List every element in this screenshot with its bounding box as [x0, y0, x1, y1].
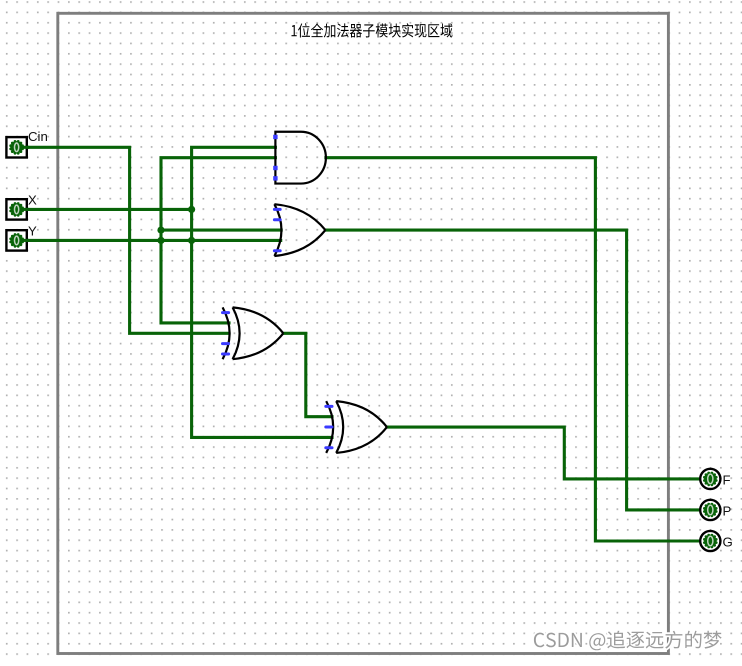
wire net B: AND input pin2 down vertical B to XOR2 input pin4 — [192, 147, 332, 437]
svg-text:Cin: Cin — [28, 129, 48, 144]
input pin Y — [6, 224, 37, 251]
junction Y net at vertical B — [188, 237, 195, 244]
XOR gate U4 — [326, 401, 387, 453]
input pin X — [6, 193, 37, 220]
wire net A: AND input pin3 down vertical A to XOR1 input pin2 — [161, 158, 275, 323]
input pin Cin — [6, 129, 47, 157]
wire XOR1 output to XOR2 input pin2 — [283, 333, 332, 416]
XOR gate U3 — [223, 307, 284, 359]
junction net A at OR branch — [157, 227, 164, 234]
svg-text:X: X — [28, 193, 37, 208]
wire Cin net: Cin pin to XOR1 input pin3 — [27, 147, 229, 333]
svg-text:G: G — [723, 535, 733, 550]
svg-text:F: F — [723, 473, 731, 488]
wire Y net: Y pin across junctions to OR gate input pin4 — [27, 239, 281, 242]
output pin G — [700, 531, 733, 551]
svg-text:Y: Y — [28, 224, 37, 239]
wire X net: X pin to junction on vertical B — [27, 208, 192, 211]
junction Y net at vertical A — [157, 237, 164, 244]
AND gate U1 — [273, 132, 326, 184]
svg-text:P: P — [723, 504, 732, 519]
output pin P — [700, 500, 731, 520]
wire AND output to output pin G — [326, 158, 700, 541]
watermark: CSDN @追逐远方的梦 — [534, 631, 722, 651]
OR gate U2 — [274, 204, 325, 256]
wire net A branch: junction to OR gate input pin3 — [161, 229, 281, 232]
wire OR output to output pin P — [325, 230, 700, 510]
title label: 1位全加法器子模块实现区域 — [292, 23, 453, 37]
junction X net at vertical B — [188, 206, 195, 213]
wire XOR2 output to output pin F — [387, 427, 700, 479]
output pin F — [700, 469, 730, 489]
